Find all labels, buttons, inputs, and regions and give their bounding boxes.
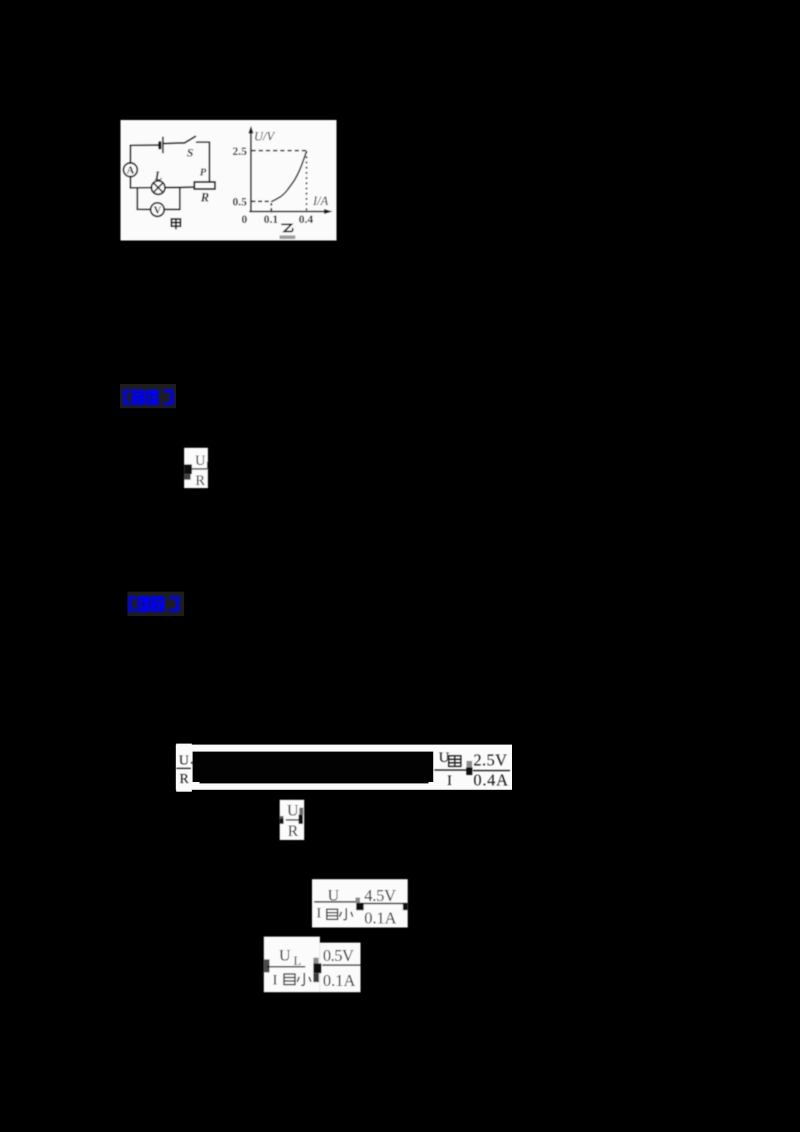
lamp L (circle with X) — [151, 181, 165, 195]
switch S contact wire — [197, 141, 210, 143]
wire battery to switch — [163, 142, 184, 145]
gray mark above equals — [313, 958, 318, 964]
gray mark right — [299, 808, 303, 815]
svg-text:0.5V: 0.5V — [323, 946, 354, 965]
svg-text:U: U — [287, 803, 299, 820]
solution label highlight box — [128, 592, 185, 616]
svg-text:0.1A: 0.1A — [323, 971, 356, 990]
wire voltmeter branch left — [137, 188, 151, 210]
U-I curve — [271, 151, 306, 202]
fraction bar — [434, 769, 467, 770]
rheostat R body — [194, 182, 215, 189]
label Yi (graph caption) — [282, 224, 293, 231]
gray mark above equals — [467, 761, 472, 767]
gray smudge under Yi — [280, 235, 296, 239]
svg-text:4.5V: 4.5V — [364, 886, 396, 905]
solution label blue text (jie-da) — [128, 596, 179, 612]
dotted tick at I=0.1 — [270, 203, 272, 214]
svg-text:0: 0 — [242, 214, 248, 226]
battery B (long thin plate) — [162, 137, 164, 152]
svg-text:R: R — [180, 772, 190, 787]
subscript CJK xiao — [297, 973, 310, 985]
equals blob — [313, 963, 321, 973]
battery B (short thick plate) — [158, 143, 161, 148]
svg-text:U: U — [195, 453, 206, 469]
switch S blade — [185, 136, 196, 143]
fraction bar (left box) — [176, 768, 191, 769]
graph x-axis — [249, 211, 327, 213]
formula box 3: U/R — [280, 800, 305, 840]
svg-text:R: R — [288, 823, 299, 840]
svg-text:V: V — [154, 206, 162, 217]
black blob right edge — [299, 815, 303, 824]
wire lamp to rheostat — [165, 186, 195, 189]
svg-text:2.5V: 2.5V — [473, 751, 507, 770]
svg-text:R: R — [200, 191, 209, 205]
analysis label blue text (fen-xi) — [123, 390, 173, 405]
black tick right edge — [207, 462, 208, 469]
label Jia (circuit diagram caption) — [171, 219, 180, 229]
gray shadow below equals — [184, 474, 191, 480]
gray mark left edge — [264, 959, 270, 972]
wire voltmeter branch right — [164, 188, 180, 210]
dark gray mark below equals — [313, 973, 319, 982]
svg-text:0.4: 0.4 — [299, 214, 314, 226]
formula box 4: U/Imin = 4.5V/0.1A — [312, 879, 408, 928]
svg-text:0.5: 0.5 — [233, 196, 248, 208]
x-axis arrowhead — [324, 209, 333, 214]
svg-text:L: L — [154, 169, 163, 183]
formula row 2 strip — [176, 745, 512, 790]
subscript CJK glyph (e) — [449, 756, 461, 767]
svg-text:U: U — [279, 948, 291, 965]
ammeter A — [123, 163, 137, 177]
figure panel white background — [121, 120, 337, 241]
svg-text:U: U — [439, 750, 450, 766]
redacted black text run — [193, 752, 434, 782]
comma mark right of U — [191, 762, 193, 764]
fraction bar — [267, 966, 305, 967]
formula box 1: =U/R — [184, 448, 208, 489]
wire top-left from ammeter up and across to battery — [130, 145, 159, 163]
svg-text:U/V: U/V — [254, 129, 276, 143]
svg-text:U: U — [179, 753, 189, 768]
svg-text:R: R — [195, 473, 205, 489]
fraction bar — [473, 770, 510, 771]
svg-text:I/A: I/A — [312, 194, 329, 208]
fraction bar — [364, 903, 404, 904]
svg-text:0.4A: 0.4A — [473, 771, 508, 790]
equals blob left — [184, 464, 192, 474]
svg-text:2.5: 2.5 — [233, 146, 248, 158]
subscript CJK zui — [284, 974, 295, 985]
svg-text:I: I — [316, 906, 321, 922]
equals blob — [466, 767, 472, 775]
equals blob — [356, 903, 364, 911]
fraction bar — [314, 901, 355, 902]
svg-text:I: I — [273, 972, 278, 988]
gray mark left — [280, 816, 284, 819]
dotted line at I=0.4 — [306, 151, 308, 211]
svg-text:0.1A: 0.1A — [364, 909, 396, 928]
svg-text:I: I — [447, 773, 452, 789]
svg-text:0.1: 0.1 — [264, 214, 279, 226]
svg-text:L: L — [294, 954, 302, 968]
wire ammeter to lamp (bottom run) — [130, 177, 151, 188]
wire right side down to rheostat slider — [208, 142, 210, 182]
svg-text:A: A — [127, 166, 135, 177]
subscript CJK zui — [327, 909, 338, 919]
svg-text:S: S — [187, 146, 194, 160]
analysis label highlight box — [120, 384, 176, 408]
formula box 5: UL/Imin = 0.5V/0.1A — [264, 937, 361, 993]
equals blob left edge — [280, 819, 284, 824]
fraction bar — [286, 819, 300, 820]
left fraction box U/R — [176, 744, 192, 792]
black mark right edge — [403, 903, 408, 911]
graph y-axis — [250, 131, 252, 212]
fraction bar — [191, 468, 207, 469]
subscript CJK xiao — [340, 909, 353, 920]
dashed line at U=0.5 — [252, 200, 272, 202]
y-axis arrowhead — [248, 126, 253, 134]
dashed line at U=2.5 — [252, 150, 307, 152]
voltmeter V — [151, 203, 165, 217]
svg-text:P: P — [200, 167, 207, 178]
fraction bar — [322, 964, 360, 965]
rated voltage fraction U_e / I — [434, 750, 510, 790]
gray mark above equals — [356, 898, 361, 903]
